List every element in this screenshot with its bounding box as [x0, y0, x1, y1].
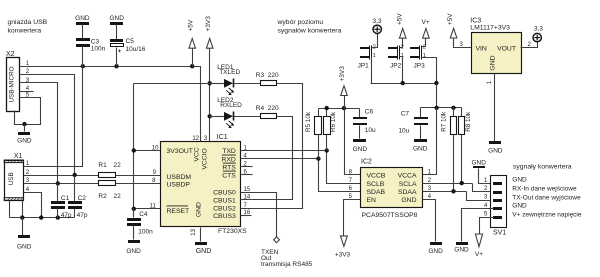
svg-text:47p: 47p: [77, 212, 88, 219]
wire VCCA rail: [421, 107, 462, 109]
SV1 pad 4: [493, 207, 502, 210]
IC U1 FT230XS body: [161, 134, 248, 235]
IC1 pin14 number: [244, 195, 251, 201]
svg-text:+5V: +5V: [397, 13, 404, 25]
wire RESET to C4: [134, 208, 161, 210]
IC1 label GND: [196, 202, 203, 217]
node 3V3 rail junction: [342, 106, 346, 110]
text wybor poziomu sygnalow konwertera: [277, 19, 342, 34]
svg-text:USB-MICRO: USB-MICRO: [8, 66, 15, 102]
svg-text:sygnałów konwertera: sygnałów konwertera: [278, 28, 342, 35]
IC2 pin5 number: [349, 194, 353, 200]
connector X1 label: [14, 153, 23, 160]
text sygnaly konwertera: [513, 164, 572, 171]
svg-text:V+: V+: [475, 251, 483, 258]
IC1 RTS stub: [241, 166, 253, 168]
svg-text:gniazda USB: gniazda USB: [8, 19, 48, 26]
svg-text:GND: GND: [428, 248, 443, 255]
svg-text:JP2: JP2: [390, 63, 402, 70]
SV1 label V+: [512, 211, 582, 218]
IC1 label CBUS0: [213, 190, 236, 197]
IC1 label 3V3OUT: [167, 148, 193, 155]
SV1 label RX-In: [512, 186, 577, 193]
SV1 pad 2: [493, 191, 502, 194]
X1 pin4 number: [26, 187, 30, 193]
capacitor C1 47p: [51, 184, 72, 219]
svg-text:VCCA: VCCA: [398, 173, 417, 180]
X2 pin5 number: [26, 93, 30, 99]
IC2 label SCLA: [399, 181, 417, 188]
wire R1 to USBDM: [116, 175, 161, 177]
node 3V3OUT junction: [132, 148, 136, 152]
IC2 label SDAB: [367, 189, 386, 196]
svg-text:47p: 47p: [61, 212, 72, 219]
IC2 label SCLB: [367, 181, 385, 188]
svg-text:VCCB: VCCB: [367, 173, 386, 180]
IC1 pin10 number: [152, 145, 159, 151]
svg-text:CBUS2: CBUS2: [213, 206, 236, 213]
svg-text:R3: R3: [256, 72, 265, 79]
wire X1 pin4 to ground rail: [24, 193, 42, 218]
node SCLA-R8 junction: [460, 181, 464, 185]
IC2 label EN: [367, 197, 377, 204]
svg-text:IC3: IC3: [470, 18, 481, 25]
IC2 label SDAA: [398, 189, 417, 196]
svg-text:konwertera: konwertera: [8, 27, 42, 34]
svg-text:GND: GND: [17, 243, 32, 250]
IC U2 PCA9507 body: [361, 159, 423, 219]
ground above C5: [109, 15, 124, 25]
SV1 pin numbers: [484, 178, 488, 217]
SV1 label GND row4: [512, 203, 527, 210]
jumper JP2: [388, 45, 404, 70]
svg-text:10u: 10u: [398, 127, 409, 134]
X2 pin4 number: [26, 86, 30, 92]
svg-text:GND: GND: [196, 202, 203, 217]
svg-text:+3V3: +3V3: [335, 252, 351, 259]
svg-text:V+ zewnętrzne napięcie: V+ zewnętrzne napięcie: [512, 211, 582, 218]
wire R2 to USBDP: [116, 183, 161, 185]
svg-text:R8 10k: R8 10k: [465, 111, 472, 132]
svg-text:C4: C4: [139, 211, 148, 218]
resistor R7 10k: [441, 108, 457, 192]
node D- C2 junction: [73, 173, 77, 177]
svg-text:GND: GND: [471, 159, 486, 166]
IC1 pin16 number: [244, 210, 251, 216]
node VCCA 4way junction: [434, 106, 438, 110]
IC1 pin1 number: [244, 145, 248, 151]
node rail-shield junction: [20, 215, 24, 219]
svg-text:RTS: RTS: [222, 164, 236, 171]
wire X1 ground stem: [22, 218, 24, 236]
node D+ C1 junction: [56, 181, 60, 185]
X1 pin1 number: [26, 161, 30, 167]
IC2 label VCCA: [398, 173, 417, 180]
svg-text:R2: R2: [98, 193, 107, 200]
IC2 label VCCB: [367, 173, 386, 180]
svg-text:R5 10k: R5 10k: [305, 111, 312, 132]
svg-text:22: 22: [114, 162, 122, 169]
IC1 pin13 number: [191, 228, 197, 235]
svg-text:220: 220: [268, 72, 279, 79]
capacitor C6 10u: [353, 109, 376, 139]
SV1 label TX-Out: [512, 194, 581, 201]
capacitor C3: [76, 25, 106, 67]
wire X2 pin3 D+ to X1 pin3 line: [20, 83, 58, 184]
wire CBUS0 to TXEN: [241, 193, 277, 237]
IC1 label CBUS2: [213, 206, 236, 213]
wire X1 pin2 D- to R1: [24, 175, 99, 177]
svg-text:X2: X2: [6, 51, 15, 58]
capacitor C2 47p: [68, 176, 88, 219]
supply +3V3 arrow (down): [335, 236, 351, 259]
svg-text:EN: EN: [367, 197, 377, 204]
wire JP1 pin1 to select rail: [371, 57, 373, 84]
ground under IC1: [195, 242, 211, 255]
wire R4 to CBUS1: [241, 117, 293, 200]
IC2 pin6 number: [349, 186, 353, 192]
ground under C6: [353, 139, 368, 153]
IC1 pin4 number: [244, 153, 248, 159]
IC1 pin11 number: [150, 204, 157, 210]
capacitor C5 polarized: [110, 25, 146, 67]
node RXD-R5 junction: [316, 156, 320, 160]
svg-text:1: 1: [423, 53, 426, 59]
svg-text:CBUS1: CBUS1: [213, 198, 236, 205]
svg-text:C5: C5: [126, 38, 135, 45]
node RESET-C4 junction: [132, 207, 136, 211]
svg-text:VIN: VIN: [476, 45, 487, 52]
svg-text:SV1: SV1: [493, 230, 506, 237]
wire X2 shield stub: [15, 111, 25, 125]
node rail-pin4 junction: [39, 215, 43, 219]
svg-text:10: 10: [152, 145, 159, 151]
wire ground rail under X1: [10, 217, 75, 219]
svg-text:GND: GND: [454, 247, 469, 254]
resistor R4 220: [256, 105, 279, 119]
node rail JP2 junction: [401, 81, 405, 85]
IC1 label RTS: [222, 163, 236, 171]
node R6 top junction: [325, 106, 329, 110]
node 3V3-LED1 junction: [208, 81, 212, 85]
IC1 pin8 number: [152, 178, 156, 184]
X2 pin3 number: [26, 78, 30, 84]
svg-text:C7: C7: [401, 111, 410, 118]
ground under SV1 pin4: [454, 242, 469, 254]
X2 pin2 number: [26, 69, 30, 75]
svg-text:TX-Out dane wyjściowe: TX-Out dane wyjściowe: [512, 194, 581, 201]
IC1 label TXD: [222, 148, 236, 155]
svg-text:+5V: +5V: [447, 13, 454, 25]
wire SV1 pin4 to ground: [462, 209, 494, 242]
svg-text:TXLED: TXLED: [219, 69, 240, 76]
node 3V3-LED2 junction: [208, 114, 212, 118]
svg-text:GND: GND: [353, 146, 368, 153]
IC2 pin7 number: [349, 178, 353, 184]
wire voltage select rail: [371, 83, 437, 85]
connector X2 label: [6, 51, 15, 58]
wire SV1 pin5 to V+: [480, 218, 494, 234]
SV1 pad 1: [493, 182, 502, 185]
X2 pin1 number: [26, 61, 30, 67]
resistor R1 22: [98, 162, 121, 177]
IC3 pin3 number: [459, 42, 463, 48]
svg-text:+3V3: +3V3: [205, 16, 212, 32]
supply V+ arrow JP3: [422, 19, 430, 38]
IC1 label USBDM: [167, 174, 192, 181]
svg-text:3V3OUT: 3V3OUT: [167, 148, 193, 155]
svg-text:LM1117+3V3: LM1117+3V3: [470, 25, 510, 32]
svg-text:GND: GND: [512, 177, 527, 184]
svg-text:SDAA: SDAA: [398, 189, 417, 196]
svg-text:100n: 100n: [91, 46, 106, 53]
wire X1 pin3 D+ to R2: [24, 183, 99, 185]
IC2 pin8 number: [349, 170, 353, 176]
svg-text:RESET: RESET: [167, 208, 190, 215]
svg-text:transmisja RS485: transmisja RS485: [261, 261, 313, 268]
wire X2 pin5 GND loop: [20, 98, 41, 125]
wire rail drop to VCCA rail: [436, 84, 438, 108]
resistor R5 10k: [305, 109, 322, 159]
capacitor C4 100n: [127, 209, 153, 240]
IC1 pin9 number: [153, 170, 157, 176]
svg-text:VOUT: VOUT: [497, 45, 516, 52]
svg-text:sygnały konwertera: sygnały konwertera: [513, 164, 572, 171]
svg-text:USB: USB: [8, 172, 15, 185]
wire JP3 pin2 to V+: [422, 39, 426, 47]
wire 3V3 to VCCB: [345, 109, 361, 175]
resistor R2 22: [98, 181, 121, 201]
supply +3V3 arrow (top): [205, 16, 213, 142]
wire RXD to SDAB: [241, 159, 361, 192]
wire VCCA drop: [423, 108, 437, 175]
node SDAA-R7 junction: [451, 189, 455, 193]
node bus-C5 junction: [114, 64, 118, 68]
IC3 label VIN: [476, 45, 487, 52]
ground under C7: [413, 139, 428, 153]
svg-text:RXLED: RXLED: [220, 102, 242, 109]
supply +3V3 arrow (middle): [339, 66, 347, 109]
IC2 pin3 number: [428, 186, 432, 192]
svg-text:GND: GND: [75, 15, 90, 22]
svg-text:RXD: RXD: [221, 156, 235, 163]
svg-text:220: 220: [268, 105, 279, 112]
svg-text:USBDM: USBDM: [167, 174, 192, 181]
node R7 top junction: [451, 106, 455, 110]
svg-text:R7 10k: R7 10k: [441, 111, 448, 132]
wire GND to SV1 pin1: [479, 169, 494, 184]
svg-text:VCC: VCC: [194, 147, 201, 161]
supply +5V arrow (top): [187, 19, 195, 66]
svg-text:13: 13: [191, 228, 197, 235]
svg-text:FT230XS: FT230XS: [218, 228, 247, 235]
svg-text:GND: GND: [17, 137, 32, 144]
IC1 label USBDP: [167, 181, 191, 188]
wire IC3 GND pin1: [487, 74, 494, 142]
node bus +5V arrow junction: [190, 64, 194, 68]
svg-text:3,3: 3,3: [534, 25, 543, 32]
ground above C3: [75, 15, 90, 25]
wire X2 pin2 D- to X1 pin2 line: [20, 75, 75, 176]
svg-text:100n: 100n: [138, 229, 153, 236]
svg-text:C6: C6: [365, 109, 374, 116]
wire JP3 pin1 to select rail: [422, 58, 437, 84]
supply 3,3 circle JP1: [372, 18, 381, 34]
SV1 pad 5: [493, 216, 502, 219]
wire EN to +3V3: [344, 200, 361, 237]
IC1 label RESET: [167, 206, 190, 215]
svg-text:C1: C1: [61, 195, 70, 202]
svg-text:JP1: JP1: [358, 63, 370, 70]
svg-text:X1: X1: [14, 153, 23, 160]
svg-text:+5V: +5V: [187, 19, 194, 31]
svg-text:JP3: JP3: [414, 63, 426, 70]
svg-text:GND: GND: [512, 203, 527, 210]
supply +5V arrow IC3: [447, 13, 471, 48]
LED2 RXLED: [210, 97, 261, 128]
svg-text:GND: GND: [109, 15, 124, 22]
ground under X1: [17, 235, 32, 250]
IC1 pin15 number: [244, 187, 251, 193]
IC1 label CBUS3: [213, 213, 236, 220]
svg-text:R1: R1: [98, 162, 107, 169]
svg-text:GND: GND: [126, 248, 141, 255]
LED1 TXLED: [210, 64, 261, 95]
IC2 pin1 number: [428, 170, 432, 176]
svg-text:VCCIO: VCCIO: [202, 148, 209, 170]
svg-text:SDAB: SDAB: [367, 189, 386, 196]
jumper JP3: [410, 45, 426, 70]
IC1 label CBUS1: [213, 198, 236, 205]
svg-text:10u: 10u: [365, 127, 376, 134]
svg-text:11: 11: [150, 204, 157, 210]
wire JP2 pin1 to select rail: [400, 57, 403, 84]
svg-text:wybór poziomu: wybór poziomu: [277, 19, 324, 26]
IC1 label VCCIO: [202, 148, 209, 170]
resistor R8 10k: [459, 108, 472, 184]
svg-text:12: 12: [192, 136, 199, 142]
svg-text:SCLA: SCLA: [399, 181, 417, 188]
svg-text:GND: GND: [489, 55, 496, 70]
resistor R6 10k: [324, 109, 337, 151]
wire R3 to CBUS2: [241, 84, 303, 209]
ground under X2: [17, 132, 32, 144]
wire X1 shield stubs: [10, 201, 23, 218]
node bus-C3 junction: [81, 64, 85, 68]
node TXD-R6 junction: [325, 148, 329, 152]
wire X2 ground stem: [24, 125, 26, 132]
IC3 label GND: [489, 55, 496, 70]
wire JP2 pin2 to +5V: [400, 39, 403, 48]
svg-text:GND: GND: [196, 248, 212, 255]
SV1 pad 3: [493, 199, 502, 202]
ground under IC2 pin4: [428, 242, 443, 255]
IC1 pin6 number: [244, 169, 248, 175]
svg-text:GND: GND: [401, 197, 416, 204]
IC3 label VOUT: [497, 45, 516, 52]
svg-text:IC2: IC2: [361, 159, 372, 166]
IC1 pin12 number: [192, 136, 199, 142]
ground above SV1: [471, 159, 486, 168]
IC1 label RXD: [221, 155, 235, 163]
supply 3,3 circle IC3: [533, 25, 543, 41]
svg-text:SCLB: SCLB: [367, 181, 385, 188]
wire 3V3OUT feed: [134, 84, 210, 209]
IC2 pin4 number: [428, 194, 432, 200]
X1 pin2 number: [26, 170, 30, 176]
IC1 label CTS: [222, 171, 236, 179]
connector SV1 body: [491, 176, 507, 237]
wire 3V3 pullup rail: [319, 108, 360, 110]
svg-text:22: 22: [114, 193, 122, 200]
IC1 pin2 number: [244, 161, 248, 167]
wire IC2 GND pin4: [423, 200, 436, 242]
svg-text:TXD: TXD: [222, 148, 236, 155]
svg-text:IC1: IC1: [217, 134, 228, 141]
IC1 GND stem: [200, 228, 202, 242]
IC2 pin2 number: [428, 178, 432, 184]
svg-text:CTS: CTS: [222, 172, 236, 179]
svg-text:GND: GND: [413, 146, 428, 153]
IC1 CBUS3 stub: [241, 215, 252, 217]
IC1 pin3 number: [204, 136, 208, 142]
svg-text:10u/16: 10u/16: [126, 46, 146, 53]
wire VBUS bus X2 pin1 to IC1 VCC pin12: [20, 67, 201, 142]
wire X1 pin1 VBUS riser: [24, 67, 83, 167]
connector X1 body: [4, 160, 23, 201]
ground under IC3: [488, 141, 503, 154]
IC1 CTS stub: [241, 174, 253, 176]
IC2 label GND: [401, 197, 416, 204]
capacitor C7 10u: [398, 108, 428, 140]
svg-text:GND: GND: [488, 147, 503, 154]
node rail JP3 junction: [434, 81, 438, 85]
node TXEN pad diamond: [274, 237, 280, 243]
supply +5V arrow JP2: [397, 13, 407, 39]
svg-text:V+: V+: [422, 19, 430, 26]
wire TXD to SCLB: [241, 151, 361, 184]
svg-text:CBUS3: CBUS3: [213, 213, 236, 220]
svg-text:R4: R4: [256, 105, 265, 112]
IC3 pin2 number: [528, 42, 532, 48]
svg-text:USBDP: USBDP: [167, 181, 191, 188]
wire SDAA to SV1 pin3: [423, 192, 494, 201]
svg-text:C3: C3: [91, 39, 100, 46]
IC U3 LM1117 body: [470, 18, 521, 74]
resistor R3 220: [256, 72, 279, 86]
svg-text:RX-In dane wejściowe: RX-In dane wejściowe: [512, 186, 577, 193]
svg-text:CBUS0: CBUS0: [213, 190, 236, 197]
svg-text:C2: C2: [78, 195, 87, 202]
ground under C4: [126, 240, 141, 255]
supply V+ arrow (down): [475, 234, 483, 258]
text TXEN label: [261, 249, 313, 268]
node rail-C1 junction: [56, 215, 60, 219]
wire SCLA to SV1 pin2: [423, 184, 494, 192]
wire VOUT to 3,3: [521, 42, 538, 48]
svg-text:1: 1: [373, 53, 376, 59]
X1 pin3 number: [26, 178, 30, 184]
node X2 ground junction: [22, 122, 26, 126]
svg-text:PCA9507TSSOP8: PCA9507TSSOP8: [362, 212, 418, 219]
IC1 label VCC: [194, 147, 201, 161]
text gniazda USB konwertera: [8, 19, 48, 35]
svg-text:3,3: 3,3: [372, 18, 381, 25]
connector X2 body: [7, 58, 20, 112]
SV1 label GND row1: [512, 177, 527, 184]
wire X2 pin4 stub: [20, 91, 34, 93]
wire JP1 pin2 to 3V3 supply: [372, 34, 378, 48]
